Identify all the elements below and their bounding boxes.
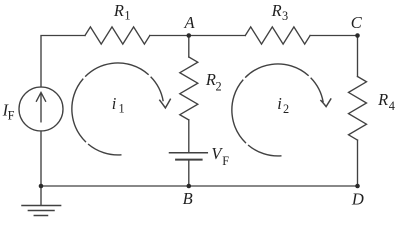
svg-text:R: R — [205, 70, 216, 89]
svg-text:2: 2 — [283, 102, 289, 116]
wire R3 to node C — [310, 35, 357, 37]
svg-text:F: F — [8, 109, 15, 123]
svg-text:2: 2 — [216, 80, 222, 94]
node C junction dot — [355, 33, 360, 38]
svg-text:R: R — [271, 1, 282, 20]
svg-text:i: i — [112, 94, 117, 113]
node B junction dot — [187, 184, 192, 189]
svg-text:1: 1 — [124, 9, 130, 23]
label R2 — [205, 70, 222, 94]
svg-text:F: F — [222, 154, 229, 168]
wire battery to node B — [188, 161, 190, 187]
label i2 — [277, 94, 289, 116]
label R1 — [113, 1, 131, 23]
label VF — [211, 144, 229, 168]
svg-text:i: i — [277, 94, 282, 113]
svg-text:D: D — [351, 189, 364, 208]
svg-text:R: R — [377, 90, 388, 109]
wire current source bottom lead — [40, 131, 42, 186]
svg-text:A: A — [184, 13, 196, 32]
label R4 — [377, 90, 395, 113]
current source IF arrow — [40, 95, 42, 122]
current source IF circle — [19, 87, 63, 131]
label R3 — [271, 1, 289, 23]
resistor R2 — [180, 57, 198, 120]
wire node C down to R4 — [357, 36, 359, 77]
node A junction dot — [187, 33, 192, 38]
battery VF top plate — [170, 152, 208, 154]
resistor R4 — [349, 77, 367, 141]
svg-text:1: 1 — [119, 102, 125, 116]
wire node A down to R2 — [188, 36, 190, 58]
svg-text:B: B — [183, 189, 193, 208]
ground — [22, 186, 61, 216]
wire R4 to node D — [357, 140, 359, 186]
svg-text:3: 3 — [282, 9, 288, 23]
label i1 — [112, 94, 125, 116]
label IF — [2, 100, 15, 122]
loop arrow i1 — [72, 63, 170, 155]
ground junction dot — [39, 184, 44, 189]
node D junction dot — [355, 184, 360, 189]
battery VF bottom plate — [176, 159, 202, 161]
svg-text:4: 4 — [389, 99, 395, 113]
wire top-left segment — [41, 36, 85, 88]
resistor R1 — [85, 27, 150, 44]
wire R1 to node A to R3 — [150, 35, 246, 37]
svg-text:C: C — [351, 13, 363, 32]
wire R2 to battery — [188, 120, 190, 152]
loop arrow i2 — [232, 64, 331, 156]
wire bottom rail — [41, 185, 358, 187]
resistor R3 — [245, 27, 310, 44]
svg-text:R: R — [113, 1, 124, 20]
